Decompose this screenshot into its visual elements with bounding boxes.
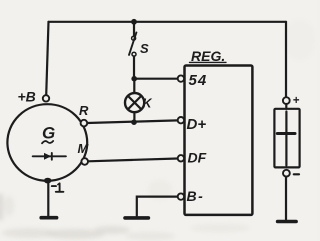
svg-text:G: G [42, 124, 55, 143]
svg-text:K: K [143, 97, 153, 111]
svg-text:B-: B- [187, 188, 205, 204]
svg-text:REG.: REG. [191, 48, 225, 64]
svg-text:+B: +B [18, 89, 36, 105]
svg-text:DF: DF [188, 150, 207, 166]
svg-text:S: S [140, 41, 149, 56]
svg-text:+: + [293, 95, 300, 107]
svg-text:D+: D+ [187, 116, 207, 133]
svg-text:M: M [78, 141, 90, 156]
svg-text:54: 54 [189, 72, 208, 89]
svg-text:R: R [79, 103, 89, 118]
